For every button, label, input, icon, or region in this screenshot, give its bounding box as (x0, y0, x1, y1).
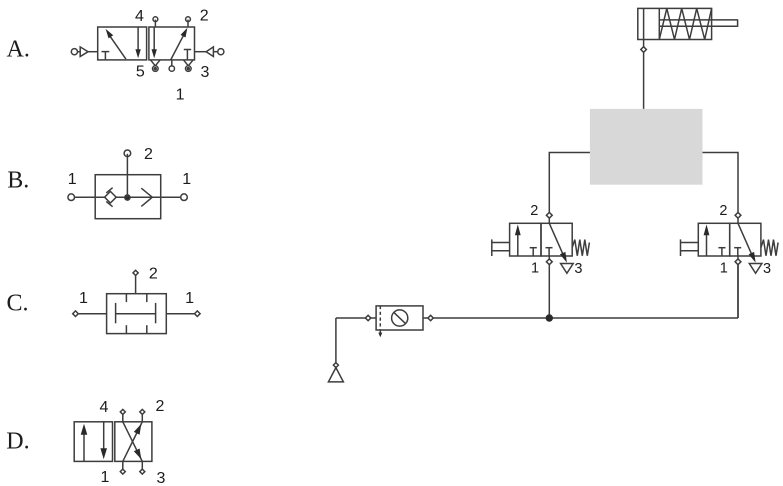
svg-text:3: 3 (157, 470, 166, 486)
svg-text:4: 4 (135, 8, 144, 25)
svg-text:3: 3 (200, 64, 209, 81)
svg-text:A.: A. (7, 36, 30, 62)
svg-text:2: 2 (144, 146, 153, 163)
svg-text:D.: D. (6, 428, 29, 454)
svg-text:1: 1 (182, 171, 191, 188)
svg-text:2: 2 (156, 398, 165, 415)
svg-text:1: 1 (176, 87, 185, 104)
svg-text:1: 1 (79, 290, 88, 307)
svg-text:1: 1 (185, 290, 194, 307)
svg-text:2: 2 (719, 203, 727, 219)
svg-text:1: 1 (720, 260, 728, 276)
svg-text:4: 4 (100, 399, 109, 416)
svg-text:3: 3 (763, 261, 771, 277)
svg-text:2: 2 (149, 266, 158, 283)
svg-text:5: 5 (136, 63, 145, 80)
svg-text:1: 1 (531, 260, 539, 276)
svg-text:B.: B. (7, 167, 29, 193)
svg-text:2: 2 (530, 203, 538, 219)
svg-text:C.: C. (7, 291, 29, 317)
svg-text:1: 1 (68, 171, 77, 188)
svg-text:1: 1 (101, 469, 110, 486)
svg-text:2: 2 (200, 8, 209, 25)
svg-text:3: 3 (574, 261, 582, 277)
